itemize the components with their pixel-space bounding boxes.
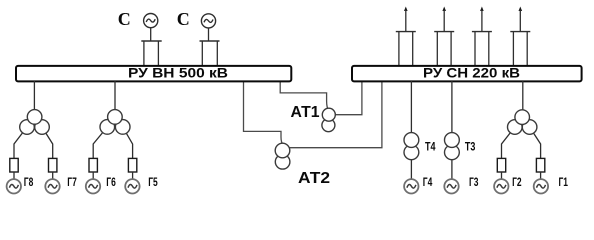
svg-text:АТ1: АТ1 [291,104,320,121]
wire T1 left branch [14,127,27,158]
C1 portal left leg [143,41,145,66]
wire G1 lead [540,172,542,180]
svg-text:Г5: Г5 [148,175,158,189]
wire T3 to G3 [451,157,453,180]
breaker G5 [128,158,136,172]
wire AT1 to bus SN [335,81,362,115]
wire AT1 feed from bus VN [280,81,336,115]
wire AT2 feed from bus VN [244,81,290,148]
breaker G2 [497,158,505,172]
wire T1 stem from bus VN [33,81,35,112]
wire T5 right branch [530,127,541,158]
outgoing line W4 [510,7,530,67]
svg-text:С: С [177,9,190,29]
C1 portal bar [141,40,161,42]
wire C1 stem [150,28,152,41]
wire G5 lead [132,172,134,180]
generator G4 [404,179,418,193]
generator G3 [444,179,458,193]
C2 portal bar [200,40,220,42]
breaker G6 [89,158,97,172]
svg-text:С: С [118,9,131,29]
autotransformer AT1 [322,108,335,132]
svg-text:Г6: Г6 [106,175,116,189]
wire T4 to G4 [410,157,412,180]
source C2 [201,14,215,28]
transformer T1 (3-winding) [20,110,50,135]
bus VN 500 kV [16,65,291,82]
svg-text:РУ ВН 500 кВ: РУ ВН 500 кВ [128,65,228,81]
breaker G1 [536,158,544,172]
C2 portal right leg [216,41,218,66]
wire AT2 to bus SN [288,81,382,148]
autotransformer AT2 [275,143,290,169]
generator G1 [534,179,548,193]
wire G6 lead [92,172,94,180]
transformer T5 (3-winding) [508,110,537,135]
wire T1 right branch [42,127,53,158]
svg-text:Г1: Г1 [559,175,569,189]
outgoing line W3 [472,7,492,67]
svg-text:Т4: Т4 [425,140,436,154]
breaker G7 [49,158,57,172]
wire T2 stem from bus VN [114,81,116,112]
wire T2 right branch [123,127,133,158]
generator G2 [494,179,508,193]
svg-text:Г8: Г8 [24,175,34,189]
wire G7 lead [52,172,54,180]
generator G5 [125,179,139,193]
wire T2 left branch [93,127,107,158]
transformer T2 (3-winding) [100,110,130,135]
bus SN 220 kV [352,65,582,82]
outgoing line W2 [434,7,454,67]
transformer T3 [445,133,460,160]
svg-text:Г7: Г7 [67,175,77,189]
breaker G8 [10,158,18,172]
svg-text:АТ2: АТ2 [298,170,330,187]
svg-text:РУ СН 220 кВ: РУ СН 220 кВ [423,65,520,81]
svg-text:Г4: Г4 [423,175,433,189]
generator G6 [86,179,100,193]
transformer T4 [404,133,419,160]
wire T4 stem from bus SN [410,81,412,135]
svg-text:Т3: Т3 [465,140,476,154]
generator G8 [7,179,21,193]
C1 portal right leg [157,41,159,66]
wire T5 stem from bus SN [522,81,524,112]
source C1 [144,14,158,28]
wire G2 lead [501,172,503,180]
svg-text:Г2: Г2 [512,175,522,189]
outgoing line W1 [396,7,416,67]
wire C2 stem [208,28,210,41]
generator G7 [45,179,59,193]
wire T5 left branch [502,127,515,158]
wire T3 stem from bus SN [451,81,453,135]
wire G8 lead [13,172,15,180]
svg-text:Г3: Г3 [469,175,479,189]
C2 portal left leg [201,41,203,66]
